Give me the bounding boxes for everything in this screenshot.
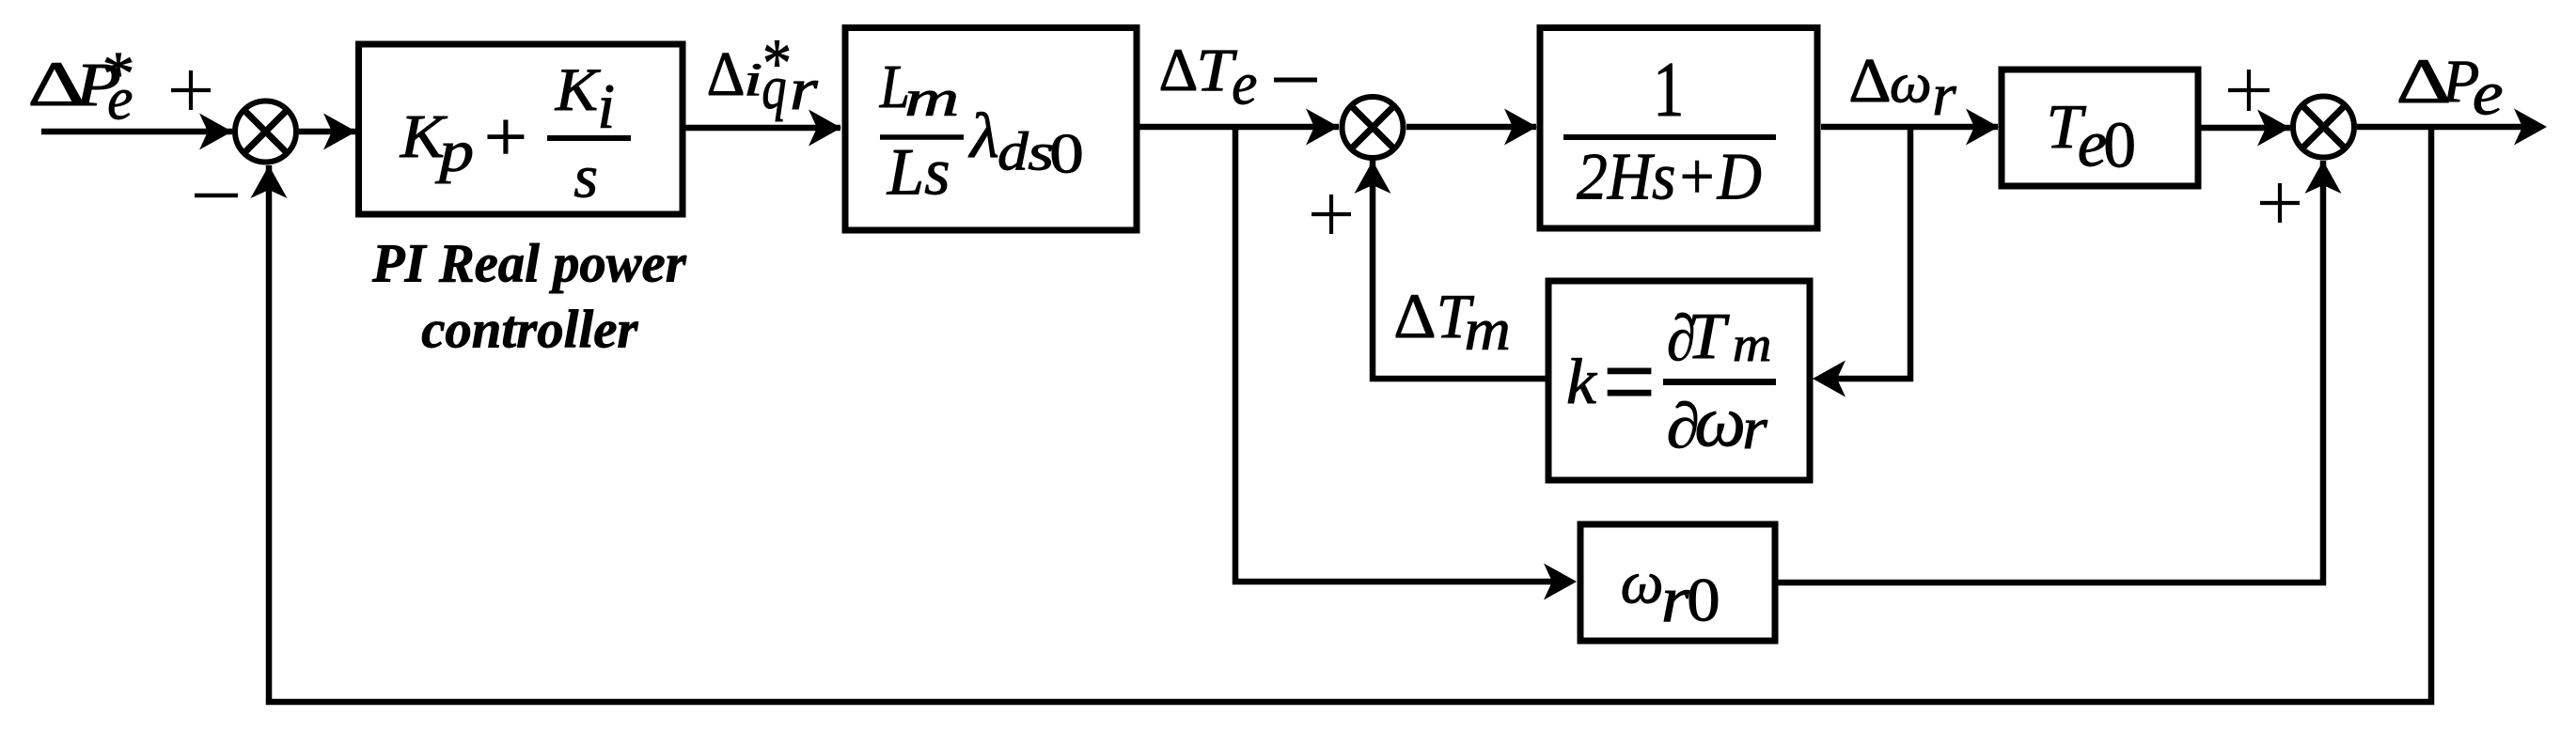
svg-text:m: m (1733, 317, 1772, 372)
svg-text:Ls: Ls (887, 135, 950, 209)
svg-text:k: k (1566, 346, 1598, 417)
svg-text:0: 0 (1049, 121, 1084, 185)
svg-text:q: q (762, 53, 786, 121)
svg-text:r: r (1661, 563, 1689, 635)
svg-text:Δ: Δ (1848, 46, 1891, 116)
svg-text:=: = (1603, 322, 1656, 443)
svg-text:m: m (1465, 297, 1511, 363)
svg-text:Δ: Δ (1159, 37, 1199, 104)
svg-text:r: r (790, 56, 818, 122)
svg-text:K: K (555, 57, 601, 124)
svg-text:+: + (484, 97, 527, 175)
svg-text:1: 1 (1653, 47, 1684, 133)
svg-text:e: e (107, 65, 133, 132)
svg-text:controller: controller (421, 300, 638, 359)
svg-text:ω: ω (1694, 381, 1746, 461)
svg-text:p: p (434, 118, 474, 184)
svg-text:i: i (744, 53, 762, 105)
svg-text:s: s (573, 144, 598, 210)
svg-text:λ: λ (968, 101, 999, 172)
svg-text:e: e (1232, 50, 1257, 117)
svg-text:r: r (1742, 396, 1767, 461)
svg-text:r: r (1932, 61, 1956, 128)
svg-text:ω: ω (1621, 549, 1664, 616)
svg-text:m: m (904, 70, 959, 127)
svg-text:0: 0 (1687, 566, 1720, 634)
svg-text:Δ: Δ (707, 40, 746, 110)
svg-text:i: i (597, 70, 615, 142)
svg-text:T: T (1687, 300, 1730, 373)
svg-text:0: 0 (2103, 109, 2136, 181)
svg-text:Δ: Δ (1393, 281, 1436, 352)
svg-text:2Hs+D: 2Hs+D (1577, 139, 1762, 213)
svg-text:e: e (2473, 59, 2504, 129)
svg-text:ω: ω (1890, 53, 1932, 115)
svg-text:PI Real power: PI Real power (371, 234, 686, 294)
svg-text:d: d (997, 122, 1029, 182)
